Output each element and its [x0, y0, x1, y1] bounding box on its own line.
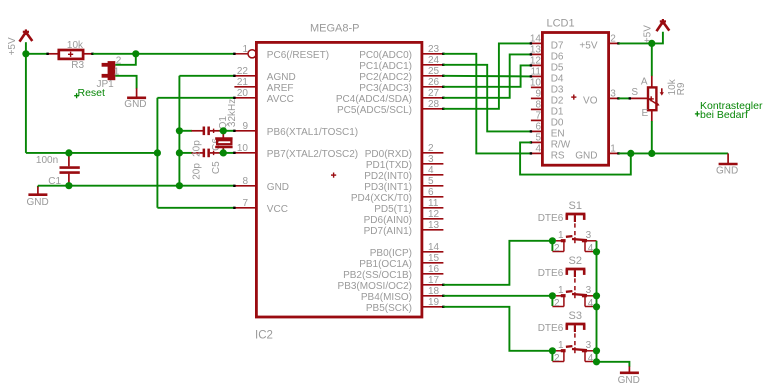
- svg-text:24: 24: [428, 55, 440, 66]
- S2 pin number 3: [586, 285, 592, 296]
- svg-text:DTE6: DTE6: [538, 268, 564, 279]
- svg-text:4: 4: [588, 298, 594, 309]
- wire RESET net: +5V junction to R3: [26, 53, 48, 55]
- wire R9 bottom to GND net: [651, 121, 653, 153]
- IC2 pin number 26: [428, 77, 440, 88]
- svg-text:20: 20: [237, 88, 249, 99]
- svg-text:14: 14: [530, 34, 542, 45]
- svg-text:2: 2: [554, 243, 560, 254]
- LCD1 pin name RS: [551, 150, 565, 161]
- power +5V supply symbol (top left): [20, 29, 33, 41]
- IC2 part name: [255, 330, 273, 342]
- IC2 part value MEGA8-P: [310, 23, 360, 35]
- IC2 pin number 18: [428, 286, 440, 297]
- svg-text:+5V: +5V: [642, 25, 653, 43]
- wire XTAL2 to IC2 pin 10: [223, 152, 234, 154]
- svg-text:D6: D6: [551, 51, 564, 62]
- LCD1 pin 4 stub (left): [530, 152, 543, 154]
- svg-text:GND: GND: [716, 166, 738, 177]
- IC2 pin 18 stub (right): [422, 295, 445, 297]
- S1 pin number 1: [558, 230, 564, 241]
- svg-text:32kHz: 32kHz: [227, 99, 238, 127]
- crystal Q1 (32kHz): [215, 131, 232, 153]
- LCD1 pin name D1: [551, 106, 564, 117]
- svg-text:22: 22: [237, 66, 249, 77]
- IC2 pin name VCC: [267, 204, 288, 215]
- LCD1 pin number 3: [610, 89, 616, 100]
- label Kontrastegler bei Bedarf (green): [695, 100, 763, 121]
- svg-text:PB4(MISO): PB4(MISO): [361, 292, 412, 303]
- S1 part name: [569, 200, 582, 212]
- svg-text:S: S: [631, 87, 638, 98]
- svg-text:EN: EN: [551, 128, 565, 139]
- svg-text:+5V: +5V: [579, 40, 597, 51]
- S3 value DTE6: [538, 323, 564, 334]
- wire +5V horizontal rail to VCC column: [26, 152, 158, 154]
- svg-text:15: 15: [428, 253, 440, 264]
- IC2 pin name PD7(AIN1): [364, 226, 412, 237]
- Q1 name (rotated): [218, 116, 229, 130]
- C5 value 20p (rotated): [192, 163, 203, 180]
- svg-text:10k: 10k: [67, 40, 84, 51]
- svg-text:PC6(/RESET): PC6(/RESET): [267, 50, 329, 61]
- svg-text:AVCC: AVCC: [267, 94, 294, 105]
- IC2 pin name AGND: [267, 72, 296, 83]
- svg-text:PB0(ICP): PB0(ICP): [370, 248, 412, 259]
- S2 pin number 4: [588, 298, 594, 309]
- wire GND net to right ground: [631, 152, 728, 154]
- wire +5V vertical rail (left): [25, 54, 27, 153]
- IC2 pin number 5: [428, 176, 434, 187]
- svg-text:GND: GND: [575, 150, 597, 161]
- wire JP1 pin 1 to ground: [115, 76, 136, 89]
- junction node AGND column on GND rail: [176, 182, 183, 189]
- wire LCD +5V pin to junction: [619, 42, 652, 44]
- label GND (below C1): [27, 197, 49, 208]
- S2 part name: [569, 255, 582, 267]
- S3 pin number 4: [588, 353, 594, 364]
- svg-text:PD7(AIN1): PD7(AIN1): [364, 226, 412, 237]
- IC2 pin number 25: [428, 66, 440, 77]
- svg-text:D5: D5: [551, 62, 564, 73]
- junction node +5V right: [648, 40, 655, 47]
- svg-text:GND: GND: [267, 182, 289, 193]
- IC2 pin name PD6(AIN0): [364, 215, 412, 226]
- wire switch GND bus vertical: [596, 241, 598, 362]
- LCD1 pin 11 stub (left): [530, 75, 543, 77]
- svg-text:23: 23: [428, 44, 440, 55]
- wire AVCC/VCC vertical: [156, 98, 158, 208]
- IC2 pin 3 stub (right): [422, 163, 444, 165]
- IC2 pin name PD0(RXD): [365, 149, 412, 160]
- svg-text:6: 6: [535, 122, 541, 133]
- LCD1 pin name D6: [551, 51, 564, 62]
- svg-text:18: 18: [428, 286, 440, 297]
- svg-text:E: E: [642, 108, 649, 119]
- LCD1 pin name VO: [583, 95, 598, 106]
- junction node C1 bottom on GND rail: [65, 182, 72, 189]
- ground symbol below switches: [620, 366, 639, 372]
- wire S3 pin 4 to ground: [597, 362, 630, 367]
- junction node S1 pin 4: [593, 248, 600, 255]
- S1 pin number 3: [586, 230, 592, 241]
- svg-text:PB5(SCK): PB5(SCK): [366, 303, 412, 314]
- IC2 pin number 24: [428, 55, 440, 66]
- S1 pin number 4: [588, 243, 594, 254]
- IC2 pin 13 stub (right): [422, 229, 444, 231]
- svg-text:19: 19: [428, 297, 440, 308]
- IC2 pin 22 stub (left): [233, 75, 256, 77]
- svg-text:PC4(ADC4/SDA): PC4(ADC4/SDA): [336, 94, 412, 105]
- IC2 pin number 23: [428, 44, 440, 55]
- S2 value DTE6: [538, 268, 564, 279]
- junction node C5 left on AGND column: [176, 149, 183, 156]
- svg-text:PD1(TXD): PD1(TXD): [366, 160, 412, 171]
- wire PC1 to LCD EN: [443, 65, 531, 132]
- IC2 pin 27 stub (right): [422, 97, 445, 99]
- junction node +5V left: [22, 50, 29, 57]
- LCD1 pin name D5: [551, 62, 564, 73]
- IC2 pin number 12: [428, 209, 440, 220]
- LCD1 pin number 6: [535, 122, 541, 133]
- Q1 value 32kHz (rotated): [227, 99, 238, 127]
- junction node S3 pin 4: [593, 358, 600, 365]
- LCD1 pin 3 stub (right): [609, 97, 620, 99]
- IC2 pin number 28: [428, 99, 440, 110]
- IC2 pin name PD5(T1): [374, 204, 412, 215]
- LCD1 pin number 13: [530, 45, 542, 56]
- svg-text:1: 1: [558, 285, 564, 296]
- S3 pin number 1: [558, 340, 564, 351]
- svg-text:20p: 20p: [192, 163, 203, 180]
- svg-text:14: 14: [428, 242, 440, 253]
- IC2 pin number 14: [428, 242, 440, 253]
- svg-text:bei Bedarf: bei Bedarf: [700, 109, 748, 121]
- svg-text:PB1(OC1A): PB1(OC1A): [359, 259, 412, 270]
- svg-text:11: 11: [428, 198, 439, 209]
- capacitor C1: [60, 153, 80, 186]
- JP1 pin number 1: [114, 66, 120, 77]
- svg-text:D3: D3: [551, 84, 564, 95]
- IC2 pin 23 stub (right): [422, 53, 445, 55]
- junction node S2 pin 3: [593, 292, 600, 299]
- svg-text:16: 16: [428, 264, 440, 275]
- svg-text:5: 5: [428, 176, 434, 187]
- svg-text:21: 21: [237, 77, 249, 88]
- svg-text:PB6(XTAL1/TOSC1): PB6(XTAL1/TOSC1): [267, 127, 358, 138]
- svg-text:17: 17: [428, 275, 440, 286]
- wire PC5 to LCD D7: [443, 43, 531, 108]
- IC2 pin name PD4(XCK/T0): [351, 193, 412, 204]
- IC2 pin 21 stub (left): [234, 86, 256, 88]
- R9 name (rotated): [676, 82, 687, 95]
- svg-text:2: 2: [428, 143, 434, 154]
- svg-text:A: A: [641, 77, 648, 88]
- svg-text:1: 1: [558, 230, 564, 241]
- LCD1 pin 9 stub (left): [531, 97, 543, 99]
- IC2 pin 16 stub (right): [422, 273, 444, 275]
- svg-text:5: 5: [535, 133, 541, 144]
- junction node S1 pin 1: [549, 237, 556, 244]
- IC2 pin number 17: [428, 275, 440, 286]
- IC2 pin number 9: [242, 121, 248, 132]
- IC2 pin name PC3(ADC3): [359, 83, 412, 94]
- LCD1 pin name D3: [551, 84, 564, 95]
- wire AVCC to IC2 pin 20: [157, 97, 234, 99]
- JP1 pin number 2: [116, 55, 122, 66]
- IC2 pin 9 stub (left): [233, 130, 256, 132]
- IC2 pin 14 stub (right): [422, 251, 444, 253]
- svg-text:2: 2: [610, 34, 616, 45]
- LCD1 pin name D4: [551, 73, 564, 84]
- svg-text:S1: S1: [569, 200, 582, 212]
- svg-text:PB3(MOSI/OC2): PB3(MOSI/OC2): [338, 281, 412, 292]
- svg-text:MEGA8-P: MEGA8-P: [310, 23, 360, 35]
- IC2 pin number 22: [237, 66, 249, 77]
- wire +5V junction to supply arrow: [652, 32, 663, 44]
- IC2 pin name PC5(ADC5/SCL): [337, 105, 412, 116]
- svg-text:PD0(RXD): PD0(RXD): [365, 149, 412, 160]
- IC2 pin 12 stub (right): [422, 218, 444, 220]
- C5 name (rotated): [211, 161, 222, 174]
- wire RESET net: junction to IC2 pin 1: [136, 53, 235, 55]
- svg-text:D4: D4: [551, 73, 564, 84]
- svg-text:D2: D2: [551, 95, 564, 106]
- svg-text:R/W: R/W: [551, 139, 571, 150]
- LCD1 pin name D2: [551, 95, 564, 106]
- svg-text:PC1(ADC1): PC1(ADC1): [359, 61, 412, 72]
- IC2 pin number 21: [237, 77, 249, 88]
- svg-text:1: 1: [610, 144, 616, 155]
- wire LCD R/W to GND loop: [520, 142, 631, 174]
- svg-text:100n: 100n: [36, 155, 58, 166]
- svg-text:AREF: AREF: [267, 83, 294, 94]
- capacitor C6 (20p, XTAL1): [179, 127, 223, 136]
- LCD1 pin 2 stub (right): [609, 42, 620, 44]
- junction node R9-E on GND net: [648, 150, 655, 157]
- IC2 pin 15 stub (right): [422, 262, 444, 264]
- junction node S2 pin 1: [549, 292, 556, 299]
- IC2 pin 28 stub (right): [422, 108, 445, 110]
- ground symbol below JP1: [127, 88, 146, 98]
- svg-text:2: 2: [554, 353, 560, 364]
- svg-text:PD3(INT1): PD3(INT1): [364, 182, 412, 193]
- svg-text:DTE6: DTE6: [538, 213, 564, 224]
- C6 name (rotated, behind crystal): [211, 138, 222, 151]
- IC2 pin 4 stub (right): [422, 174, 444, 176]
- ground symbol right of LCD: [719, 153, 738, 164]
- svg-text:10: 10: [237, 143, 249, 154]
- label GND (right of LCD): [716, 166, 738, 177]
- svg-text:4: 4: [588, 243, 594, 254]
- R9 terminal label S: [631, 87, 638, 98]
- IC2 pin name PC4(ADC4/SDA): [336, 94, 412, 105]
- IC2 pin number 7: [242, 198, 248, 209]
- label GND (below switches): [618, 375, 640, 386]
- LCD1 pin number 5: [535, 133, 541, 144]
- S3 pin number 3: [586, 340, 592, 351]
- IC2 pin number 15: [428, 253, 440, 264]
- svg-text:20p: 20p: [192, 140, 203, 157]
- S1 pin number 2: [554, 243, 560, 254]
- wire LCD pin1 GND to junction: [619, 152, 631, 154]
- LCD1 pin 13 stub (left): [530, 53, 543, 55]
- IC2 pin number 13: [428, 220, 440, 231]
- LCD1 pin number 7: [535, 111, 541, 122]
- LCD1 pin name D7: [551, 40, 564, 51]
- svg-text:PB7(XTAL2/TOSC2): PB7(XTAL2/TOSC2): [267, 149, 358, 160]
- ground symbol below C1: [28, 187, 47, 195]
- LCD1 pin number 11: [531, 67, 542, 78]
- wire PB5 to S3: [443, 307, 552, 351]
- wire PB3 to S1: [443, 241, 552, 285]
- LCD1 part name: [547, 18, 575, 30]
- IC2 pin name PD1(TXD): [366, 160, 412, 171]
- IC2 origin cross: [331, 173, 336, 178]
- svg-text:8: 8: [535, 100, 541, 111]
- IC2 pin number 1: [242, 44, 248, 55]
- label +5V (left supply, rotated): [7, 37, 18, 55]
- svg-text:12: 12: [530, 56, 542, 67]
- switch S2 (DTE6): [552, 269, 596, 307]
- IC2 pin number 16: [428, 264, 440, 275]
- IC2 pin name PC2(ADC2): [359, 72, 412, 83]
- LCD1 pin number 12: [530, 56, 542, 67]
- R9 terminal label A: [641, 77, 648, 88]
- junction node S3 pin 3: [593, 347, 600, 354]
- svg-text:GND: GND: [618, 375, 640, 386]
- svg-text:26: 26: [428, 77, 440, 88]
- svg-text:PD6(AIN0): PD6(AIN0): [364, 215, 412, 226]
- IC2 pin name PD3(INT1): [364, 182, 412, 193]
- svg-text:3: 3: [586, 230, 592, 241]
- svg-text:VO: VO: [583, 95, 598, 106]
- switch S1 (DTE6): [552, 214, 596, 252]
- svg-text:1: 1: [558, 340, 564, 351]
- IC2 pin name PC6(/RESET): [267, 50, 329, 61]
- svg-text:28: 28: [428, 99, 440, 110]
- IC2 pin name PB3(MOSI/OC2): [338, 281, 412, 292]
- IC2 pin name AVCC: [267, 94, 294, 105]
- IC2 pin 17 stub (right): [422, 284, 445, 286]
- junction node RESET: [132, 50, 139, 57]
- svg-text:GND: GND: [124, 99, 146, 110]
- wire PC3 to LCD D5: [443, 65, 531, 86]
- label +5V (right supply, rotated): [642, 25, 653, 43]
- LCD1 pin name EN: [551, 128, 565, 139]
- IC2 pin name PB4(MISO): [361, 292, 412, 303]
- junction node S3 pin 1: [549, 347, 556, 354]
- label GND (below JP1): [124, 99, 146, 110]
- label Reset (green): [74, 87, 105, 99]
- LCD1 pin 12 stub (left): [530, 64, 543, 66]
- IC2 pin 8 stub (left): [233, 185, 256, 187]
- IC2 pin name PB2(SS/OC1B): [343, 270, 412, 281]
- svg-text:6: 6: [428, 187, 434, 198]
- wire +5V stem (left supply to junction): [25, 42, 27, 54]
- IC2 pin 7 stub (left): [233, 207, 256, 209]
- wire GND rail drop to ground symbol: [37, 186, 39, 188]
- LCD1 pin 1 stub (right): [609, 152, 620, 154]
- LCD1 pin 6 stub (left): [530, 130, 543, 132]
- IC2 pin number 27: [428, 88, 440, 99]
- svg-text:25: 25: [428, 66, 440, 77]
- IC2 pin number 11: [428, 198, 439, 209]
- op IC2 MEGA8-P box: [256, 42, 422, 317]
- IC2 pin name AREF: [267, 83, 294, 94]
- IC2 pin name PB0(ICP): [370, 248, 412, 259]
- svg-text:2: 2: [554, 298, 560, 309]
- svg-text:PD2(INT0): PD2(INT0): [364, 171, 412, 182]
- wire VCC to IC2 pin 7: [157, 207, 234, 209]
- svg-text:PB2(SS/OC1B): PB2(SS/OC1B): [343, 270, 412, 281]
- wire JP1 pin 2 to RESET junction: [115, 54, 136, 65]
- svg-text:D7: D7: [551, 40, 564, 51]
- junction node LCD GND: [627, 150, 634, 157]
- IC2 pin name PC1(ADC1): [359, 61, 412, 72]
- wire PC0 to LCD RS: [443, 54, 531, 154]
- svg-text:12: 12: [428, 209, 440, 220]
- IC2 pin number 10: [237, 143, 249, 154]
- IC2 pin 24 stub (right): [422, 64, 445, 66]
- C6 value 20p (rotated): [192, 140, 203, 157]
- svg-text:4: 4: [428, 165, 434, 176]
- LCD1 pin 5 stub (left): [530, 141, 543, 143]
- jumper JP1 (reset): [102, 61, 116, 80]
- svg-text:LCD1: LCD1: [547, 18, 575, 30]
- junction node C6 left on AGND column: [176, 127, 183, 134]
- svg-text:AGND: AGND: [267, 72, 296, 83]
- svg-text:27: 27: [428, 88, 440, 99]
- svg-text:8: 8: [242, 176, 248, 187]
- LCD1 pin 10 stub (left): [531, 86, 543, 88]
- junction node C1 top on +5V rail: [65, 149, 72, 156]
- svg-text:4: 4: [535, 144, 541, 155]
- svg-text:10: 10: [530, 78, 542, 89]
- capacitor C5 (20p, XTAL2): [179, 149, 223, 158]
- svg-text:3: 3: [586, 285, 592, 296]
- svg-text:7: 7: [242, 198, 248, 209]
- svg-text:R3: R3: [71, 60, 84, 71]
- IC2 pin 10 stub (left): [233, 152, 256, 154]
- IC2 pin 11 stub (right): [422, 207, 444, 209]
- LCD1 pin 7 stub (left): [531, 119, 543, 121]
- C1 name: [48, 176, 61, 187]
- S3 pin number 2: [554, 353, 560, 364]
- svg-text:7: 7: [535, 111, 541, 122]
- svg-text:R9: R9: [676, 82, 687, 95]
- IC2 pin 5 stub (right): [422, 185, 444, 187]
- svg-text:4: 4: [588, 353, 594, 364]
- svg-text:GND: GND: [27, 197, 49, 208]
- S2 pin number 2: [554, 298, 560, 309]
- resistor R3: [46, 50, 93, 59]
- LCD1 pin 14 stub (left): [530, 42, 543, 44]
- junction node S2 pin 4: [593, 303, 600, 310]
- IC2 pin name PD2(INT0): [364, 171, 412, 182]
- IC2 pin name PB1(OC1A): [359, 259, 412, 270]
- svg-text:S3: S3: [569, 310, 582, 322]
- svg-text:PC0(ADC0): PC0(ADC0): [359, 50, 412, 61]
- C1 value 100n: [36, 155, 58, 166]
- IC2 pin 20 stub (left): [233, 97, 256, 99]
- LCD1 pin number 1: [610, 144, 616, 155]
- junction node +5V rail / VCC column: [154, 149, 161, 156]
- junction node XTAL1: [220, 127, 227, 134]
- IC2 pin name PC0(ADC0): [359, 50, 412, 61]
- IC2 pin name PB5(SCK): [366, 303, 412, 314]
- IC2 pin number 8: [242, 176, 248, 187]
